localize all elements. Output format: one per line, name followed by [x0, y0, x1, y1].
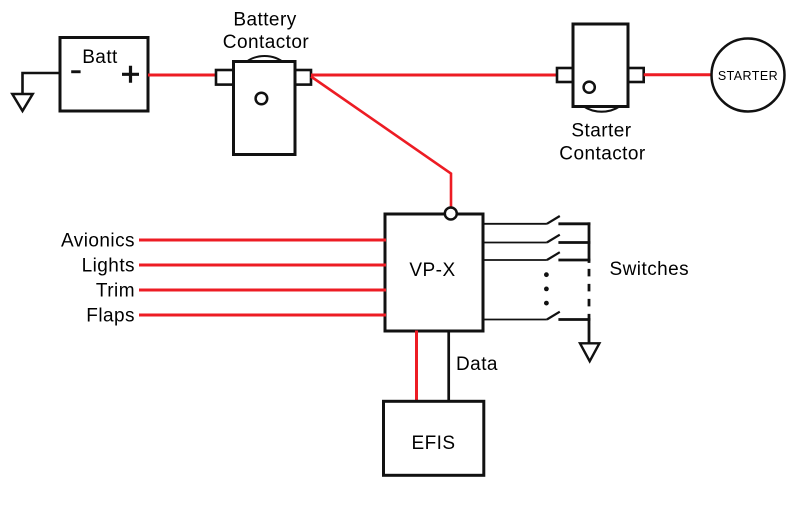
svg-text:VP-X: VP-X [409, 260, 455, 281]
svg-text:Starter: Starter [571, 120, 631, 141]
wire battery + to battery contactor (red) [148, 74, 218, 77]
switch S2 [483, 235, 590, 243]
wire battery negative to ground [23, 73, 61, 94]
svg-text:Lights: Lights [82, 255, 135, 276]
svg-text:EFIS: EFIS [411, 433, 455, 454]
battery B1 [60, 38, 148, 112]
EFIS display [384, 401, 484, 475]
wire Avionics feed (red) [139, 239, 386, 242]
wire Flaps feed (red) [139, 314, 386, 317]
switch S3 [483, 252, 590, 260]
wire battery contactor to starter contactor (red) [311, 74, 557, 77]
svg-text:Trim: Trim [96, 280, 135, 301]
starter motor M1 [712, 39, 785, 112]
starter contactor K2 [557, 24, 644, 112]
svg-text:Avionics: Avionics [61, 230, 135, 251]
battery plus terminal [122, 66, 139, 83]
svg-text:STARTER: STARTER [718, 69, 778, 83]
wire VP-X to EFIS data [447, 331, 450, 403]
wire rail to ground [588, 318, 591, 343]
switch ellipsis dots [544, 272, 549, 305]
svg-text:Batt: Batt [82, 47, 118, 68]
wire Trim feed (red) [139, 289, 386, 292]
switch S4 [483, 312, 590, 320]
VP-X unit U1 [385, 214, 483, 331]
switch S1 [483, 216, 590, 224]
node VP-X power input junction [445, 208, 457, 220]
wire switch bus rail (dashed) [588, 263, 591, 320]
wire Lights feed (red) [139, 264, 386, 267]
svg-text:Data: Data [456, 354, 498, 375]
svg-text:Contactor: Contactor [559, 144, 646, 165]
wire VP-X to EFIS power (red) [415, 331, 418, 403]
wire starter contactor to starter motor (red) [644, 73, 712, 76]
svg-text:Switches: Switches [610, 259, 690, 280]
wire switch bus rail (solid) [588, 222, 591, 263]
ground GND1 [12, 94, 32, 111]
battery minus terminal [71, 70, 80, 73]
battery contactor K1 [216, 56, 311, 154]
svg-text:Contactor: Contactor [223, 32, 310, 53]
wire battery contactor to VP-X node (red) [311, 77, 451, 209]
ground GND2 [580, 343, 599, 361]
svg-text:Battery: Battery [233, 9, 296, 30]
svg-text:Flaps: Flaps [86, 305, 135, 326]
